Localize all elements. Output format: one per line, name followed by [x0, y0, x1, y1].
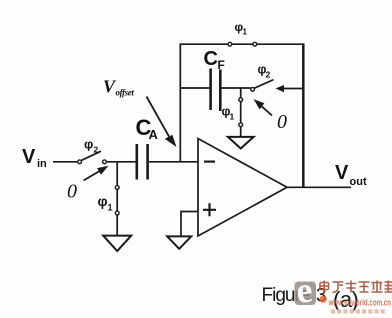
- switch S5 (phi2) arrow contact: [276, 85, 285, 92]
- label phi1 for switch S2: [98, 193, 113, 213]
- switch S1 (phi2) left contact: [78, 160, 82, 164]
- switch S4 (phi1) bottom contact: [239, 123, 243, 127]
- ground G2: [228, 137, 254, 149]
- svg-text:φ: φ: [98, 193, 108, 209]
- label CF: [204, 48, 225, 72]
- label Voffset: [103, 77, 134, 98]
- ground G1: [103, 236, 131, 251]
- capacitor CF left plate: [209, 69, 212, 111]
- switch S4 (phi1) top contact: [239, 98, 243, 102]
- svg-text:1: 1: [243, 28, 248, 37]
- label CA: [136, 115, 159, 142]
- switch S5 (phi2) blade: [254, 80, 273, 89]
- svg-text:1: 1: [108, 203, 113, 213]
- watermark chinese characters: [320, 281, 392, 293]
- svg-text:F: F: [218, 58, 225, 72]
- watermark logo icon: [295, 282, 317, 306]
- wire op-amp output to Vout: [287, 186, 351, 188]
- svg-text:2: 2: [266, 70, 271, 80]
- capacitor CF right plate: [219, 70, 222, 112]
- switch S1 (phi2) blade: [82, 151, 102, 160]
- annotation arrow from Voffset to summing node: [147, 97, 170, 137]
- wire Vin to switch S1: [53, 161, 77, 163]
- watermark slogan tiny text: [331, 309, 385, 313]
- capacitor CA right plate: [146, 144, 149, 180]
- wire capacitor CF to junction: [222, 87, 251, 89]
- switch S3 (phi1) right contact: [253, 42, 257, 46]
- annotation arrow from 0 to switch S1: [84, 170, 102, 181]
- wire vertical to switch S2 (phi1): [116, 162, 118, 235]
- node Vin label: [22, 146, 47, 170]
- watermark orange dot: [320, 296, 327, 303]
- svg-text:2: 2: [94, 145, 99, 155]
- svg-text:V: V: [335, 162, 349, 184]
- annotation arrow from 0 to switch S5: [260, 105, 272, 116]
- wire box left to capacitor CF: [180, 87, 209, 89]
- svg-text:out: out: [350, 176, 367, 188]
- label phi2 for switch S1: [84, 137, 99, 155]
- wire op-amp plus input: [181, 212, 198, 237]
- capacitor CA left plate: [136, 144, 139, 180]
- switch S5 (phi2) left contact: [251, 87, 255, 91]
- ground G3: [167, 236, 191, 248]
- op-amp U1 triangle: [198, 139, 287, 237]
- svg-text:C: C: [204, 48, 218, 70]
- wire switch S5 to box right side: [283, 88, 304, 90]
- switch S2 (phi1) top contact: [115, 186, 119, 190]
- wire switch S1 to capacitor CA: [107, 161, 136, 163]
- svg-text:φ: φ: [84, 137, 93, 152]
- switch S3 (phi1) left contact: [228, 42, 232, 46]
- svg-text:www.eeworld.com.cn: www.eeworld.com.cn: [328, 298, 391, 309]
- node Vout label: [335, 162, 367, 188]
- svg-text:0: 0: [277, 111, 287, 133]
- svg-text:in: in: [37, 158, 47, 170]
- wire feedback box top with switch S3: [180, 43, 304, 45]
- svg-text:V: V: [22, 146, 36, 168]
- label phi2 for switch S5: [258, 63, 271, 80]
- op-amp U1 minus sign: [204, 161, 215, 163]
- svg-text:0: 0: [67, 181, 77, 203]
- wire feedback box right side: [302, 43, 305, 187]
- wire feedback box left side: [179, 44, 181, 162]
- svg-text:1: 1: [230, 112, 235, 122]
- wire capacitor CA to op-amp inverting input: [149, 161, 198, 163]
- label phi1 for switch S4: [222, 105, 235, 122]
- svg-text:A: A: [149, 127, 159, 142]
- switch S2 (phi1) bottom contact: [115, 211, 119, 215]
- switch S4 (phi1) vertical line: [240, 88, 242, 137]
- op-amp U1 plus sign: [203, 203, 216, 216]
- label phi1 for switch S3: [235, 20, 248, 37]
- switch S1 (phi2) right contact: [103, 160, 107, 164]
- svg-text:offset: offset: [116, 88, 135, 98]
